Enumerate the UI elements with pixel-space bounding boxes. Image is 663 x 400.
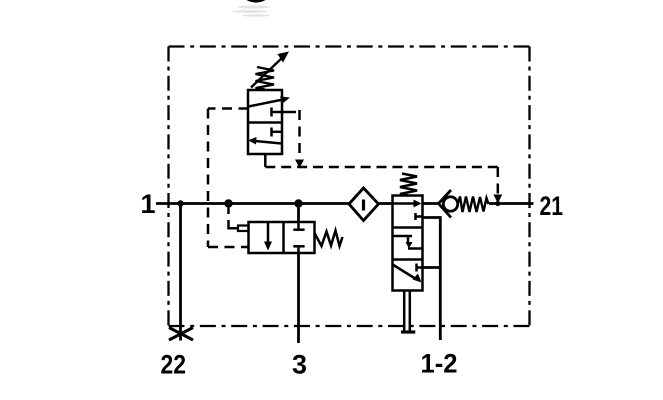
svg-text:22: 22 bbox=[161, 350, 187, 380]
svg-text:1: 1 bbox=[141, 189, 156, 219]
svg-text:3: 3 bbox=[292, 350, 307, 380]
svg-text:21: 21 bbox=[540, 191, 564, 221]
svg-text:1-2: 1-2 bbox=[421, 349, 458, 379]
